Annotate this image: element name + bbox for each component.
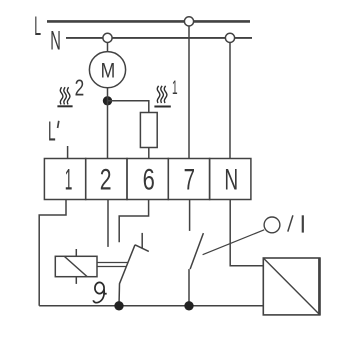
O/I bar I: [302, 215, 304, 232]
svg-text:N: N: [50, 25, 61, 55]
svg-text:M: M: [101, 59, 116, 82]
mechanical link upper line: [97, 262, 128, 264]
heating element symbol 1 (right): [154, 86, 170, 107]
bottom rail wire: [39, 305, 263, 307]
terminal 6: [127, 159, 168, 200]
wire junction to resistor: [108, 101, 149, 113]
wire junction to terminal 2: [107, 101, 109, 159]
svg-text:1: 1: [65, 164, 73, 197]
wire terminal 6 to thermostat contact: [119, 200, 148, 243]
terminal circle on N line feeding motor: [103, 33, 112, 42]
wire motor to junction: [107, 88, 109, 101]
wire power switch to bottom rail: [188, 269, 190, 306]
mechanical link lower line: [97, 266, 126, 268]
wire L tap to terminal 7: [188, 26, 190, 159]
wire terminal N to power supply box: [230, 200, 263, 266]
svg-text:1: 1: [172, 78, 178, 99]
stub wire above terminal 1: [67, 146, 69, 159]
sensor bottom tick: [75, 277, 77, 284]
sensor top tick: [75, 249, 77, 256]
wire N tap to terminal N: [229, 43, 231, 159]
terminal 2: [86, 159, 127, 200]
wire terminal 2 to thermostat contact: [107, 200, 109, 247]
junction dot thermostat pivot: [114, 301, 123, 310]
terminal circle on N line right: [225, 33, 234, 42]
motor M: [89, 52, 125, 88]
wire terminal 7 to power switch: [189, 200, 191, 231]
terminal N: [210, 159, 251, 200]
svg-text:6: 6: [143, 164, 155, 197]
wire N tap to motor: [107, 43, 109, 52]
sensor diagonal: [65, 257, 88, 277]
power supply box right edge thick: [318, 258, 321, 315]
junction dot motor node: [103, 96, 112, 105]
thermostat fixed contact flag: [135, 245, 149, 252]
junction dot power switch pivot: [184, 301, 193, 310]
svg-text:N: N: [224, 163, 238, 196]
O/I slash: [288, 215, 293, 231]
svg-text:2: 2: [75, 75, 85, 101]
N supply line: [66, 37, 252, 39]
thermostat contact stub: [141, 233, 143, 248]
power supply diagonal: [263, 258, 320, 315]
terminal 1: [44, 159, 85, 200]
heating element symbol 2 (left): [57, 87, 72, 106]
thermostat sensor box: [55, 256, 97, 276]
power switch arm: [190, 233, 203, 269]
O/I indicator circle O: [264, 217, 280, 233]
label theta: [93, 282, 106, 302]
terminal circle on L line: [184, 17, 193, 26]
svg-text:2: 2: [100, 164, 112, 197]
actuator link to O/I: [203, 230, 265, 255]
power supply box: [263, 258, 320, 315]
thermostat switch arm: [119, 245, 135, 306]
svg-text:7: 7: [184, 164, 195, 197]
resistor R: [140, 113, 157, 148]
wire resistor to terminal 6: [148, 148, 150, 159]
svg-text:L: L: [34, 11, 41, 41]
wire terminal 1 to left rail: [39, 200, 66, 306]
terminal 7: [168, 159, 209, 200]
L supply line: [47, 20, 250, 23]
svg-text:L: L: [48, 116, 56, 147]
